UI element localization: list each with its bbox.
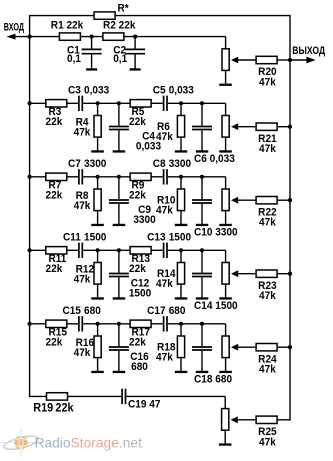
ground — [219, 224, 232, 226]
label C14 1500 — [194, 301, 238, 312]
svg-text:0,033: 0,033 — [84, 85, 109, 96]
node ВЫХОД (output) — [290, 45, 325, 63]
resistor R* — [94, 3, 130, 19]
wire — [225, 324, 227, 336]
resistor R24 — [256, 344, 277, 376]
svg-text:47k: 47k — [259, 437, 276, 448]
ground — [219, 84, 232, 86]
svg-text:47k: 47k — [259, 291, 276, 302]
wire — [67, 176, 78, 178]
resistor R5 — [129, 100, 151, 128]
capacitor C18 — [192, 324, 212, 371]
wire — [225, 250, 227, 262]
resistor R19 — [33, 393, 74, 415]
svg-text:680: 680 — [131, 362, 148, 373]
wire — [151, 102, 163, 104]
resistor R14 — [177, 250, 184, 297]
resistor R20 — [256, 56, 277, 88]
ground — [91, 224, 104, 226]
potentiometer — [222, 116, 256, 151]
resistor R6 — [177, 103, 184, 150]
wire — [277, 59, 290, 61]
capacitor C1 — [67, 37, 102, 69]
svg-text:22k: 22k — [46, 264, 63, 275]
svg-text:0,033: 0,033 — [136, 141, 161, 152]
svg-text:C13: C13 — [147, 232, 166, 243]
wire — [29, 15, 31, 397]
RadioStorage.net watermark text — [35, 435, 143, 450]
svg-text:R2 22k: R2 22k — [103, 20, 136, 31]
resistor R8 — [94, 177, 101, 224]
ground — [219, 371, 232, 373]
ground — [196, 224, 209, 226]
svg-text:22k: 22k — [55, 402, 74, 414]
potentiometer — [222, 263, 256, 298]
svg-text:680: 680 — [169, 306, 186, 317]
wire — [168, 323, 226, 325]
resistor R18 — [177, 324, 184, 371]
junction — [117, 248, 121, 252]
label C6 0,033 — [194, 154, 235, 165]
resistor R21 — [256, 123, 277, 155]
junction — [288, 198, 292, 202]
wire — [168, 176, 226, 178]
junction — [96, 322, 100, 326]
svg-text:RadioStorage.net: RadioStorage.net — [35, 435, 143, 450]
ground — [196, 371, 209, 373]
svg-text:47k: 47k — [74, 127, 91, 138]
svg-text:22k: 22k — [46, 190, 63, 201]
svg-text:C5: C5 — [153, 85, 166, 96]
svg-text:47k: 47k — [156, 132, 173, 143]
RadioStorage.net watermark logo — [0, 428, 45, 457]
potentiometer — [222, 49, 256, 84]
resistor R11 — [46, 247, 67, 275]
svg-text:0,1: 0,1 — [113, 54, 127, 65]
resistor R1 — [51, 20, 84, 40]
svg-text:C7: C7 — [68, 159, 81, 170]
capacitor C14 — [192, 250, 212, 297]
junction — [288, 272, 292, 276]
svg-text:C17: C17 — [147, 306, 166, 317]
ground — [113, 150, 126, 152]
svg-text:22k: 22k — [129, 264, 146, 275]
wire — [30, 176, 46, 178]
label C10 3300 — [194, 227, 238, 238]
ground — [219, 150, 232, 152]
svg-text:22k: 22k — [46, 337, 63, 348]
resistor R17 — [129, 320, 151, 348]
wire — [277, 126, 290, 128]
label R4 47k — [74, 117, 91, 138]
wire — [30, 395, 47, 397]
svg-text:C8: C8 — [153, 159, 166, 170]
wire — [151, 323, 163, 325]
ground — [175, 297, 188, 299]
potentiometer — [222, 409, 257, 444]
svg-text:R19: R19 — [33, 402, 53, 414]
wire — [224, 396, 226, 408]
svg-text:47k: 47k — [74, 348, 91, 359]
junction — [96, 248, 100, 252]
wire — [83, 323, 130, 325]
capacitor C4 — [109, 103, 129, 150]
svg-text:ВХОД: ВХОД — [4, 21, 24, 33]
svg-text:C10 3300: C10 3300 — [194, 227, 238, 238]
label R12 47k — [74, 264, 95, 285]
label C9 3300 — [133, 205, 156, 226]
resistor R25 — [256, 416, 277, 448]
wire — [225, 37, 227, 49]
wire — [168, 249, 226, 251]
wire — [67, 102, 78, 104]
junction — [200, 322, 204, 326]
wire — [80, 36, 103, 38]
ground — [175, 371, 188, 373]
ground — [219, 297, 232, 299]
junction — [288, 125, 292, 129]
junction — [288, 345, 292, 349]
label C4 0,033 — [136, 131, 161, 152]
label R16 47k — [74, 338, 95, 359]
svg-text:0,1: 0,1 — [67, 54, 81, 65]
wire — [83, 176, 130, 178]
resistor R15 — [46, 320, 68, 348]
svg-text:47k: 47k — [259, 217, 276, 228]
junction — [200, 101, 204, 105]
resistor R10 — [177, 177, 184, 224]
svg-text:3300: 3300 — [169, 159, 192, 170]
resistor R13 — [129, 247, 151, 275]
wire — [289, 15, 291, 421]
svg-text:1500: 1500 — [169, 232, 192, 243]
svg-text:0,033: 0,033 — [169, 85, 194, 96]
wire — [277, 346, 290, 348]
svg-text:47k: 47k — [74, 274, 91, 285]
ground — [175, 224, 188, 226]
wire — [30, 323, 46, 325]
ground — [91, 297, 104, 299]
svg-text:47k: 47k — [156, 279, 173, 290]
svg-text:3300: 3300 — [84, 159, 107, 170]
capacitor C8 — [153, 159, 192, 185]
capacitor C16 — [109, 324, 129, 371]
junction — [179, 101, 183, 105]
svg-text:22k: 22k — [129, 337, 146, 348]
capacitor C7 — [68, 159, 107, 185]
ground — [113, 224, 126, 226]
wire — [277, 419, 290, 421]
resistor R22 — [256, 197, 277, 229]
svg-text:C15: C15 — [62, 306, 81, 317]
junction — [200, 248, 204, 252]
label R8 47k — [74, 191, 91, 212]
label C12 1500 — [129, 278, 152, 299]
ground — [91, 371, 104, 373]
svg-text:680: 680 — [84, 306, 101, 317]
svg-text:22k: 22k — [129, 190, 146, 201]
resistor R7 — [46, 173, 67, 201]
junction — [117, 322, 121, 326]
svg-text:C3: C3 — [68, 85, 81, 96]
label R10 47k — [156, 195, 176, 216]
junction — [96, 175, 100, 179]
capacitor C19 — [122, 389, 161, 411]
ground — [219, 443, 232, 445]
wire — [68, 395, 122, 397]
junction — [117, 101, 121, 105]
junction — [117, 175, 121, 179]
svg-text:22k: 22k — [129, 117, 146, 128]
wire — [225, 177, 227, 189]
svg-text:47k: 47k — [156, 352, 173, 363]
wire — [67, 323, 78, 325]
capacitor C5 — [153, 85, 194, 111]
resistor R4 — [94, 103, 101, 150]
junction — [90, 35, 94, 39]
junction — [179, 322, 183, 326]
junction — [179, 248, 183, 252]
svg-text:47k: 47k — [259, 364, 276, 375]
wire — [30, 249, 46, 251]
ground — [113, 371, 126, 373]
node ВХОД (input) — [4, 21, 30, 40]
svg-text:47k: 47k — [259, 144, 276, 155]
svg-text:C11: C11 — [63, 232, 81, 243]
svg-text:47k: 47k — [259, 77, 276, 88]
capacitor C3 — [68, 85, 109, 111]
capacitor C13 — [147, 232, 191, 258]
wire — [225, 103, 227, 115]
junction — [200, 175, 204, 179]
junction — [28, 35, 32, 39]
junction — [288, 58, 292, 62]
capacitor C2 — [113, 37, 145, 69]
resistor R23 — [256, 270, 277, 302]
wire — [83, 249, 130, 251]
ground — [130, 68, 141, 70]
label R18 47k — [156, 342, 176, 363]
potentiometer — [222, 189, 256, 224]
junction — [28, 248, 32, 252]
junction — [96, 101, 100, 105]
label R14 47k — [156, 269, 176, 290]
label R6 47k — [156, 122, 173, 143]
ground — [113, 297, 126, 299]
capacitor C6 — [192, 103, 212, 150]
junction — [28, 175, 32, 179]
svg-text:C19 47: C19 47 — [128, 399, 161, 410]
svg-text:C18 680: C18 680 — [194, 374, 232, 385]
svg-text:C6 0,033: C6 0,033 — [194, 154, 235, 165]
svg-text:ВЫХОД: ВЫХОД — [292, 45, 325, 57]
junction — [133, 35, 137, 39]
junction — [28, 101, 32, 105]
ground — [175, 150, 188, 152]
ground — [91, 150, 104, 152]
svg-text:R1 22k: R1 22k — [51, 20, 84, 31]
svg-text:22k: 22k — [46, 117, 63, 128]
svg-text:R*: R* — [118, 3, 130, 14]
wire — [83, 102, 130, 104]
resistor R16 — [94, 324, 101, 371]
capacitor C17 — [147, 306, 186, 332]
capacitor C15 — [62, 306, 101, 332]
label C16 680 — [130, 352, 149, 373]
wire — [124, 36, 226, 38]
capacitor C10 — [192, 177, 212, 224]
svg-text:C14 1500: C14 1500 — [194, 301, 238, 312]
wire — [126, 395, 225, 397]
capacitor C9 — [109, 177, 129, 224]
wire — [115, 15, 290, 17]
wire — [30, 15, 95, 17]
label C18 680 — [194, 374, 232, 385]
svg-text:47k: 47k — [74, 201, 91, 212]
wire — [30, 36, 60, 38]
resistor R2 — [103, 20, 136, 40]
capacitor C12 — [109, 250, 129, 297]
wire — [67, 249, 78, 251]
junction — [179, 175, 183, 179]
resistor R3 — [46, 100, 67, 128]
junction — [28, 322, 32, 326]
wire — [30, 102, 46, 104]
resistor R9 — [129, 173, 151, 201]
ground — [196, 297, 209, 299]
potentiometer — [222, 336, 256, 371]
ground — [196, 150, 209, 152]
resistor R12 — [94, 250, 101, 297]
svg-text:3300: 3300 — [133, 215, 156, 226]
svg-text:47k: 47k — [156, 205, 173, 216]
wire — [277, 199, 290, 201]
wire — [151, 249, 163, 251]
svg-text:1500: 1500 — [84, 232, 107, 243]
capacitor C11 — [63, 232, 107, 258]
svg-text:1500: 1500 — [129, 288, 152, 299]
wire — [151, 176, 163, 178]
wire — [277, 273, 290, 275]
ground — [86, 68, 97, 70]
wire — [168, 102, 226, 104]
